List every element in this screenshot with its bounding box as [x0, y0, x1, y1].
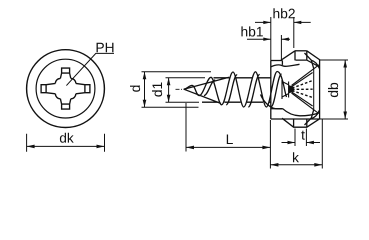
thread band second edges (front flanks) — [204, 80, 215, 96]
top step vertical — [281, 61, 283, 65]
core segments top — [214, 77, 271, 79]
recess fan — [282, 65, 319, 114]
screw body — [184, 72, 287, 108]
db dimension arrows — [343, 60, 347, 119]
hb2 dimension — [255, 17, 311, 60]
right face — [319, 60, 321, 119]
k dimension arrows — [270, 163, 322, 167]
label db (rotated) — [328, 83, 338, 97]
k dimension — [270, 120, 322, 169]
fan lower solid rays — [292, 92, 313, 106]
hb1 dimension arrows — [263, 38, 289, 41]
core segments bottom — [202, 101, 271, 103]
recess fan vertex wedge — [289, 85, 294, 94]
L dimension arrows — [186, 146, 270, 150]
hb2 dimension arrows — [263, 21, 301, 24]
bottom interior arc — [283, 109, 318, 116]
label hb1 — [241, 26, 262, 36]
t dimension — [282, 129, 321, 147]
bottom flange trapezoid — [282, 118, 320, 127]
d extension lines — [142, 72, 212, 108]
d1 dimension line — [168, 78, 170, 102]
recess depth verticals — [281, 80, 283, 99]
inner rim vertical — [313, 69, 315, 110]
head underside step line — [271, 108, 283, 110]
thread crest zigzag — [184, 72, 287, 108]
head — [261, 51, 321, 127]
label hb2 — [273, 8, 294, 18]
outer head circle — [27, 50, 105, 128]
body silhouette right of flange + chamfer to face — [296, 60, 320, 67]
bottom flange side verticals — [294, 119, 307, 127]
dk dimension — [27, 134, 105, 152]
top edge left portion — [271, 60, 283, 62]
flange top plateau — [295, 50, 307, 52]
d1 extension lines — [166, 77, 206, 79]
label PH — [97, 43, 114, 52]
inner bevel edges right shoulder — [305, 53, 314, 69]
recess neck taper lines — [282, 82, 289, 98]
fan dashed middle rays — [292, 81, 313, 89]
bottom edge — [271, 118, 320, 120]
d dimension line — [144, 72, 146, 108]
flange chamfer up — [281, 51, 295, 60]
dk dimension arrows — [27, 145, 105, 149]
flange side verticals — [295, 51, 307, 61]
db dimension — [320, 60, 348, 119]
left face — [270, 60, 272, 119]
label d (rotated) — [130, 86, 140, 92]
label L — [227, 135, 233, 144]
L dimension — [186, 103, 270, 169]
label dk — [60, 133, 74, 143]
PH label + leader — [66, 53, 114, 85]
centerline at tip — [176, 88, 187, 90]
label k — [293, 152, 299, 162]
inner head circle — [36, 59, 95, 118]
label t — [301, 131, 305, 140]
lower thread runout curve onto neck — [261, 95, 283, 109]
hb1 dimension — [247, 35, 290, 60]
tip cone upper silhouette — [184, 77, 229, 89]
d and d1 dimension arrows — [143, 72, 171, 108]
t dimension arrows — [288, 141, 314, 144]
phillips recess PH cross — [41, 68, 90, 109]
face chamfer arcs — [311, 60, 319, 68]
label d1 (rotated) — [152, 82, 162, 96]
fan upper solid rays — [292, 65, 320, 86]
head interior wavy line (thread runout to flange) — [271, 64, 300, 67]
tip cone lower silhouette — [184, 89, 221, 103]
flange chamfer down to right face — [307, 51, 320, 60]
